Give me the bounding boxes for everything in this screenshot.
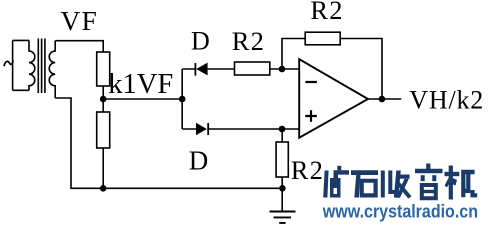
- svg-text:D: D: [189, 145, 209, 175]
- svg-text:R2: R2: [291, 155, 324, 185]
- svg-text:D: D: [191, 27, 210, 56]
- svg-text:R2: R2: [232, 26, 265, 56]
- svg-text:k1VF: k1VF: [108, 69, 173, 100]
- svg-text:www.crystalradio.cn: www.crystalradio.cn: [322, 200, 478, 221]
- svg-text:R2: R2: [310, 0, 343, 25]
- svg-text:VH/k2: VH/k2: [409, 86, 484, 115]
- svg-text:VF: VF: [61, 5, 99, 36]
